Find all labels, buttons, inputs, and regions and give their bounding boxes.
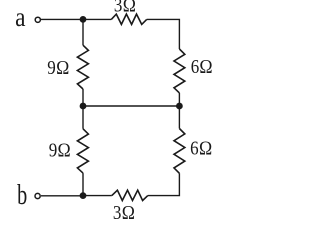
node a terminal circle [35, 17, 40, 22]
wire bottom-left junction to resistor 3ohm bottom [83, 195, 112, 197]
wire middle-left junction down [82, 106, 84, 129]
junction dot middle-right [176, 103, 183, 110]
svg-text:3: 3 [113, 203, 122, 224]
svg-text:Ω: Ω [122, 203, 135, 224]
svg-text:Ω: Ω [123, 0, 136, 16]
svg-text:a: a [15, 2, 25, 32]
svg-text:Ω: Ω [56, 58, 69, 79]
svg-text:6: 6 [190, 139, 199, 160]
wire resistor 9ohm upper to middle-left junction [82, 89, 84, 106]
svg-text:Ω: Ω [58, 141, 71, 162]
svg-text:b: b [17, 180, 27, 211]
wire top-left junction to resistor 3ohm top [83, 18, 111, 20]
junction dot top-left [80, 16, 87, 23]
resistor 3ohm top [111, 14, 146, 24]
wire resistor 9ohm lower to bottom-left junction [82, 173, 84, 196]
wire a to top-left junction [41, 18, 83, 20]
wire top-left junction down [82, 19, 84, 45]
resistor 9ohm upper-left [77, 45, 88, 89]
svg-text:9: 9 [49, 141, 58, 162]
svg-text:Ω: Ω [199, 57, 212, 78]
node b terminal circle [35, 193, 40, 198]
svg-text:9: 9 [47, 58, 56, 79]
svg-text:Ω: Ω [199, 139, 212, 160]
wire resistor 6ohm upper to middle-right junction [178, 93, 180, 106]
wire resistor 3ohm top to top-right corner [147, 19, 180, 49]
wire middle-right junction down [178, 106, 180, 129]
wire resistor 6ohm lower to bottom-right corner [148, 173, 180, 195]
resistor 9ohm lower-left [77, 129, 88, 173]
resistor 3ohm bottom [112, 190, 148, 200]
middle wire [83, 105, 179, 107]
junction dot bottom-left [80, 192, 87, 199]
svg-text:6: 6 [191, 57, 200, 78]
resistor 6ohm upper-right [174, 49, 185, 93]
wire b to bottom-left junction [41, 195, 83, 197]
svg-text:3: 3 [114, 0, 123, 16]
resistor 6ohm lower-right [174, 129, 185, 174]
junction dot middle-left [80, 103, 87, 110]
